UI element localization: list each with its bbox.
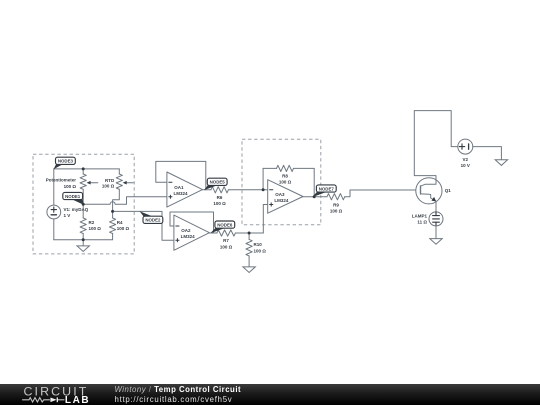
svg-text:1 V: 1 V [64,213,71,218]
svg-text:NODE2: NODE2 [145,218,161,223]
lamp LAMP1 (11 Ω) [412,212,443,226]
svg-text:NODE5: NODE5 [210,180,226,185]
ground (bridge) [77,240,89,252]
svg-text:NODE3: NODE3 [58,159,74,164]
transistor Q1 (NPN) [416,176,452,204]
potentiometer (100 Ω) [46,169,98,218]
svg-text:OA2: OA2 [181,228,191,233]
svg-text:V1: myDAQ: V1: myDAQ [64,207,89,212]
footer title and url [115,385,242,404]
resistor R4 (100 Ω) [110,218,130,240]
svg-text:10 V: 10 V [461,163,470,168]
node junction dots (bridge) [82,167,114,241]
svg-text:LM324: LM324 [181,234,196,239]
node flag NODE3 [54,157,76,169]
svg-text:100 Ω: 100 Ω [279,179,292,184]
wire: LAMP1 to ground [435,226,437,239]
svg-text:V2: V2 [463,157,469,162]
voltage source V2 (10 V) [458,139,473,168]
svg-text:R7: R7 [223,238,229,243]
wire: bridge bottom rail [54,239,113,241]
svg-text:RTD: RTD [105,178,115,183]
svg-text:100 Ω: 100 Ω [102,184,115,189]
svg-text:NODE1: NODE1 [65,194,81,199]
resistor R10 (100 Ω) [246,233,266,267]
svg-text:R2: R2 [89,220,95,225]
wire: Q1 emitter to LAMP1 [435,204,437,212]
svg-text:LAB: LAB [65,395,90,405]
dashed box: Wheatstone bridge sensor block [33,154,134,254]
op-amp OA2 (LM324) with feedback wire [170,212,214,250]
svg-text:R8: R8 [282,173,288,178]
wire: V1 bottom stem [53,219,55,240]
wire: OA3 feedback riser [263,168,314,196]
ground (LAMP1) [430,239,442,245]
wire: OA3 output to R9 and Q1 base [303,190,421,197]
svg-text:NODE7: NODE7 [319,186,335,191]
wire: Q1 collector loop to V2 [414,111,458,177]
op-amp OA3 (LM324) [268,180,303,214]
svg-text:OA1: OA1 [174,185,184,190]
svg-text:100 Ω: 100 Ω [89,226,102,231]
svg-text:R6: R6 [217,195,223,200]
svg-text:LAMP1: LAMP1 [412,213,428,218]
node flag NODE5 [204,178,227,190]
node flag NODE2 [140,211,163,223]
wire: OA1 output to OA3 inverting input [203,189,268,191]
wire: right midpoint to OA2 + input [113,211,174,240]
ground (R10) [243,267,255,273]
svg-text:R10: R10 [254,242,263,247]
wire: V1 top stem [53,169,55,205]
wire: RTD bottom jog to right arm [113,189,120,218]
wire: OA2 output to R7 [209,232,263,234]
wire: V2 to ground [473,147,502,160]
node flag NODE6 [210,221,234,233]
svg-text:Potentiometer: Potentiometer [46,178,77,183]
svg-text:LM324: LM324 [174,191,189,196]
svg-text:NODE6: NODE6 [217,222,233,227]
svg-text:100 Ω: 100 Ω [117,226,130,231]
svg-text:Q1: Q1 [445,188,452,193]
voltage source V1 (1 V, myDAQ) [47,205,89,219]
svg-text:R4: R4 [117,220,123,225]
ground (V2) [495,160,507,166]
wire: bridge top rail [54,168,120,170]
junction dots (amplifier) [248,188,316,234]
resistor R6 (100 Ω) [211,187,228,207]
node flag NODE1 [63,192,84,204]
node flag NODE7 [312,185,336,197]
svg-text:100 Ω: 100 Ω [64,184,77,189]
wire: OA3 non-inverting input path [263,205,267,234]
CircuitLab logo [21,384,97,405]
op-amp OA1 (LM324) with feedback wire [156,161,206,207]
wire: left midpoint to OA1 (with hop over right arm) [83,197,167,205]
svg-text:100 Ω: 100 Ω [254,248,267,253]
resistor R8 (100 Ω) [277,165,294,184]
RTD sensor (100 Ω) [102,169,133,189]
dashed box: amplifier stage [242,139,321,225]
resistor R7 (100 Ω) [217,230,236,250]
footer bar [0,384,540,405]
svg-text:100 Ω: 100 Ω [220,244,233,249]
svg-text:R9: R9 [333,203,339,208]
svg-text:100 Ω: 100 Ω [330,208,343,213]
resistor R2 (100 Ω) [80,218,101,240]
svg-text:OA3: OA3 [275,192,285,197]
svg-text:LM324: LM324 [274,198,289,203]
svg-text:11 Ω: 11 Ω [417,220,427,225]
resistor R9 (100 Ω) [327,194,345,214]
svg-text:100 Ω: 100 Ω [213,201,226,206]
